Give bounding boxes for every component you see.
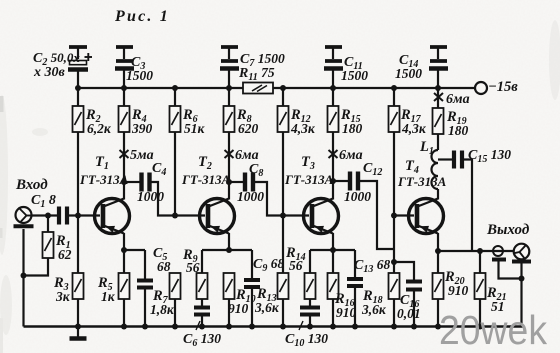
wire C12 to base column T4 (360, 181, 394, 249)
svg-text:1к: 1к (101, 289, 116, 304)
wire supply rail right (273, 87, 475, 89)
svg-text:1500: 1500 (341, 68, 368, 83)
capacitor C2 (33, 47, 92, 88)
resistor R7 (150, 273, 181, 327)
capacitor C8 (229, 162, 264, 204)
resistor R10 (224, 273, 256, 327)
svg-text:ГТ-313А: ГТ-313А (181, 172, 231, 187)
output connector X2 pin (492, 246, 506, 260)
wire rail to R15 and R15 to collector T3 (332, 88, 334, 106)
svg-text:ГТ-313А: ГТ-313А (397, 174, 447, 189)
capacitor C14 (395, 47, 448, 88)
wire emitter T1 to R5 (123, 250, 125, 273)
svg-text:910: 910 (448, 283, 469, 298)
wire socket ground to bus (520, 264, 522, 327)
svg-text:3,6к: 3,6к (361, 302, 387, 317)
svg-text:5ма: 5ма (130, 148, 154, 163)
terminal -15v (475, 79, 518, 95)
wire output line (438, 250, 514, 252)
svg-text:1500: 1500 (395, 66, 422, 81)
wire supply rail left (77, 87, 243, 89)
node base column T4 / C16 branch (391, 259, 397, 265)
wire R19 to coil (437, 134, 439, 150)
node input/R1 junction (45, 213, 51, 219)
svg-text:68: 68 (157, 259, 171, 274)
resistor R2 (73, 106, 112, 136)
node base T2 (172, 213, 178, 219)
wire C1 to base T1 (69, 214, 100, 216)
wire emitter T1 down (123, 233, 125, 250)
svg-text:180: 180 (448, 123, 469, 138)
wire emitter bus stage1 (124, 249, 145, 251)
capacitor C15 (438, 147, 511, 169)
wire rail to R12 and R12 to base node T3 (282, 88, 284, 106)
svg-text:4,3к: 4,3к (401, 121, 427, 136)
wire rail to R19 (437, 88, 439, 108)
wire C15 to output line (464, 160, 472, 252)
svg-text:390: 390 (131, 121, 153, 136)
capacitor C10 (285, 299, 328, 349)
output connector X3 socket (512, 244, 531, 262)
capacitor C5 (137, 246, 171, 327)
node collector T2 / C8 (226, 179, 232, 185)
svg-text:56: 56 (289, 258, 303, 273)
resistor R14 (285, 245, 316, 299)
node output R21 junction (477, 248, 483, 254)
node base T3 (280, 213, 286, 219)
test point x6ma stage2 (225, 148, 259, 163)
capacitor C16 (394, 262, 422, 327)
svg-text:51к: 51к (184, 121, 206, 136)
wire rail to R17 and R17 to base node T4 (393, 88, 395, 106)
wire base T4 (394, 214, 414, 216)
resistor R3 (53, 216, 84, 327)
capacitor C7 (220, 47, 285, 88)
capacitor C3 (115, 47, 153, 88)
wire connector ground loop (499, 262, 522, 279)
wire ground bus (24, 325, 523, 327)
resistor R19 (433, 108, 469, 138)
wire emitter T3 down (332, 233, 334, 250)
wire emitter bus stage2 (202, 249, 252, 251)
svg-text:20wek: 20wek (439, 307, 547, 353)
transistor T1 (79, 154, 130, 234)
resistor R5 (97, 273, 130, 327)
transistor T4 (397, 158, 447, 234)
capacitor C4 (124, 161, 166, 204)
capacitor C1 (31, 193, 67, 225)
node emitter T4 (435, 248, 441, 254)
svg-text:6,2к: 6,2к (87, 121, 112, 136)
resistor R16 (328, 250, 357, 327)
svg-text:3к: 3к (55, 289, 71, 304)
resistor R1 (43, 216, 72, 263)
node loop junction (519, 276, 525, 282)
svg-text:1500: 1500 (126, 68, 153, 83)
svg-text:0,01: 0,01 (397, 306, 421, 321)
resistor R8 (224, 106, 259, 136)
node rail junctions (75, 85, 441, 91)
resistor R20 (433, 251, 469, 327)
capacitor C12 (333, 161, 382, 204)
resistor R12 (278, 106, 316, 136)
capacitor C11 (324, 47, 368, 88)
test point x6ma stage4 (434, 92, 470, 107)
svg-text:910: 910 (336, 305, 357, 320)
svg-text:ГТ-313А: ГТ-313А (79, 172, 129, 187)
resistor R13 (254, 216, 289, 327)
wire rail to R2 and R2 to base node (77, 88, 79, 106)
wire input ground down to bus (22, 229, 24, 327)
wire R1 to input ground column (24, 258, 49, 276)
wire coil to collector T4 (437, 189, 439, 200)
resistor R18 (361, 273, 400, 327)
transistor T2 (181, 154, 235, 234)
svg-text:910: 910 (228, 301, 249, 316)
wire rail to R8 and R8 to collector T2 (228, 88, 230, 106)
svg-text:1000: 1000 (237, 189, 264, 204)
node collector T3 / C12 (330, 178, 336, 184)
svg-text:3,6к: 3,6к (254, 300, 280, 315)
svg-text:−15в: −15в (488, 79, 518, 95)
node emitter T3 (330, 247, 336, 253)
node base T4 (391, 213, 397, 219)
resistor R4 (119, 106, 153, 136)
svg-text:1000: 1000 (137, 189, 164, 204)
svg-text:62: 62 (58, 247, 72, 262)
resistor R17 (389, 106, 427, 136)
wire base column T4 to R18 (393, 216, 395, 274)
wire C4 to base T2 (152, 182, 206, 216)
svg-text:56: 56 (186, 260, 200, 275)
svg-text:620: 620 (238, 121, 259, 136)
wire emitter bus stage3 (310, 249, 355, 251)
test point x6ma stage3 (329, 148, 363, 163)
resistor R21 (475, 251, 507, 327)
svg-text:Вход: Вход (15, 177, 48, 193)
wire C8 to base T3 (255, 182, 309, 216)
test point x5ma stage1 (120, 148, 154, 163)
wire emitter T2 down (228, 233, 230, 250)
wire rail to R4 and R4 to collector T1 (123, 88, 125, 106)
svg-text:6ма: 6ма (235, 148, 259, 163)
input connector X1 (14, 207, 34, 226)
svg-text:х 30в: х 30в (33, 65, 66, 80)
node emitter T1 (121, 247, 127, 253)
svg-text:ГТ-313А: ГТ-313А (284, 172, 334, 187)
svg-text:6ма: 6ма (339, 148, 363, 163)
svg-text:1,8к: 1,8к (150, 302, 175, 317)
resistor R15 (328, 106, 363, 136)
capacitor C6 (183, 299, 221, 349)
node emitter T2 (226, 247, 232, 253)
node collector T1 / C4 (121, 179, 127, 185)
node base T1 (75, 213, 81, 219)
capacitor C13 (347, 250, 390, 327)
wire input to C1 (32, 214, 58, 216)
resistor R9 (182, 247, 208, 299)
svg-text:Выход: Выход (486, 222, 530, 238)
wire rail to R6 and R6 to base node T2 (174, 88, 176, 106)
node R1 ground junction (21, 273, 27, 279)
svg-text:180: 180 (342, 121, 363, 136)
inductor L1 (419, 139, 438, 189)
svg-text:Рис. 1: Рис. 1 (114, 8, 170, 25)
wire emitter T4 down (437, 233, 439, 251)
capacitor C9 (244, 250, 284, 327)
svg-text:6ма: 6ма (446, 92, 470, 107)
node bus junctions (75, 324, 483, 330)
ground symbol (70, 327, 87, 339)
resistor R6 (170, 106, 206, 136)
transistor T3 (284, 154, 339, 234)
resistor R11 (238, 65, 275, 94)
svg-text:4,3к: 4,3к (290, 121, 316, 136)
svg-text:1000: 1000 (344, 189, 371, 204)
